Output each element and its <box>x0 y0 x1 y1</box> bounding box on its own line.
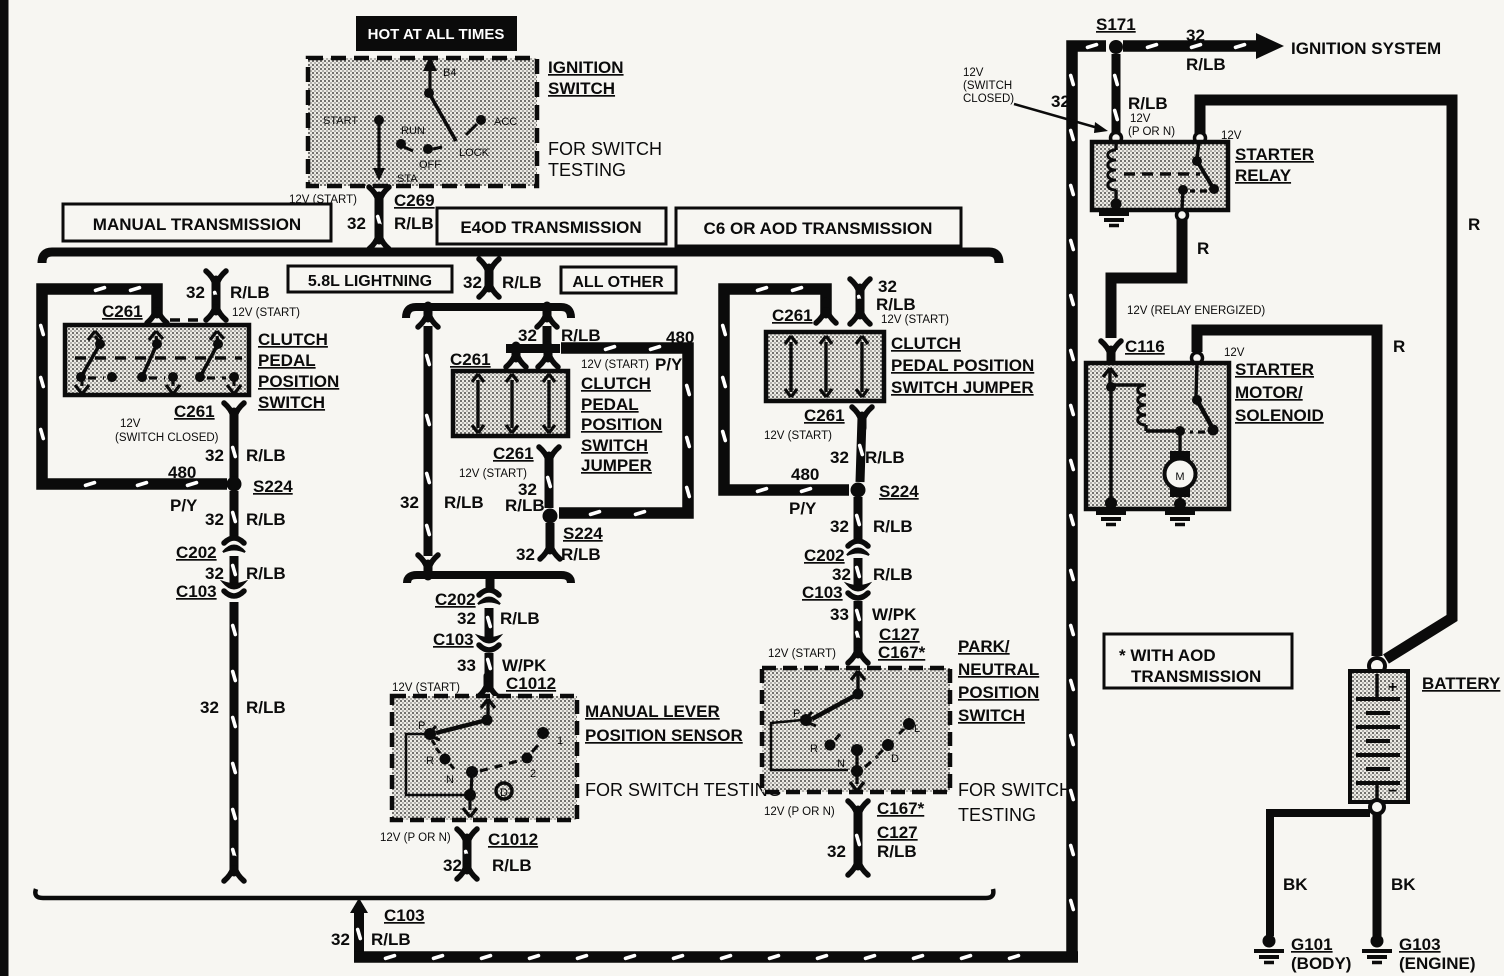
svg-text:(SWITCH: (SWITCH <box>963 80 1012 92</box>
svg-text:C261: C261 <box>102 302 143 321</box>
svg-text:C202: C202 <box>435 590 476 609</box>
svg-text:C1012: C1012 <box>488 830 538 849</box>
starter motor box <box>1086 363 1229 509</box>
svg-text:C261: C261 <box>804 406 845 425</box>
lever arm to P <box>812 694 858 719</box>
N line down and exit arrow <box>855 752 858 769</box>
svg-text:CLOSED): CLOSED) <box>963 93 1014 105</box>
svg-text:R/LB: R/LB <box>505 496 545 515</box>
dashed loop wire 480 P/Y (right) <box>720 285 849 493</box>
PNP switch internals <box>771 671 920 791</box>
svg-text:R/LB: R/LB <box>876 295 916 314</box>
svg-text:C202: C202 <box>804 546 845 565</box>
RUN terminal <box>396 139 406 149</box>
svg-text:ACC: ACC <box>494 116 517 128</box>
svg-text:PEDAL: PEDAL <box>581 395 639 414</box>
svg-text:12V: 12V <box>963 67 984 79</box>
wire S171 to starter relay <box>1112 54 1175 138</box>
svg-text:32: 32 <box>443 856 462 875</box>
jumper arrow 1 <box>785 336 797 397</box>
svg-text:C261: C261 <box>450 350 491 369</box>
wire relay output to C116 <box>1111 220 1265 338</box>
svg-text:SWITCH: SWITCH <box>548 79 615 98</box>
svg-text:32: 32 <box>205 510 224 529</box>
svg-text:12V (START): 12V (START) <box>232 307 300 319</box>
svg-text:R: R <box>1393 337 1405 356</box>
svg-text:33: 33 <box>457 656 476 675</box>
svg-text:12V (START): 12V (START) <box>764 430 832 442</box>
terminal 1 <box>537 727 549 739</box>
STA arrow down <box>377 123 380 170</box>
switch pole 2 <box>137 331 180 394</box>
label CLUTCH PEDAL POSITION SWITCH JUMPER (middle) <box>581 374 662 475</box>
dashed arc N to 2 <box>480 761 518 771</box>
motor solenoid coil <box>1111 385 1176 431</box>
connector C261 below jumper (middle) <box>459 444 559 480</box>
wire C202 to C103 (right) <box>832 558 913 586</box>
svg-text:S224: S224 <box>563 524 603 543</box>
svg-text:N: N <box>837 758 845 770</box>
dashed loop wire 480 P/Y (left) <box>38 285 227 487</box>
svg-text:32: 32 <box>331 930 350 949</box>
jumper arrow 2 <box>820 336 832 397</box>
svg-text:12V: 12V <box>1224 347 1245 359</box>
svg-text:PARK/: PARK/ <box>958 637 1010 656</box>
box ALL OTHER <box>561 267 676 293</box>
svg-text:12V (START): 12V (START) <box>881 314 949 326</box>
svg-text:32: 32 <box>400 493 419 512</box>
svg-text:C127: C127 <box>877 823 918 842</box>
svg-text:LOCK: LOCK <box>459 147 490 159</box>
svg-text:P/Y: P/Y <box>789 499 817 518</box>
battery feed wire R (relay) <box>1200 100 1480 659</box>
svg-text:R/LB: R/LB <box>561 326 601 345</box>
splice S224 (middle) <box>543 509 604 544</box>
svg-text:W/PK: W/PK <box>872 605 917 624</box>
svg-text:FOR SWITCH: FOR SWITCH <box>548 139 662 159</box>
svg-text:R/LB: R/LB <box>873 517 913 536</box>
svg-text:C167*: C167* <box>877 799 925 818</box>
box C6 OR AOD TRANSMISSION <box>676 208 961 246</box>
wire C261 to S224 (middle) <box>505 458 553 515</box>
terminal R <box>440 754 451 765</box>
lever arm to P <box>436 720 487 733</box>
svg-text:STA: STA <box>397 173 418 185</box>
svg-text:D: D <box>500 787 508 799</box>
wire C167 to bottom bus (right) <box>827 812 917 875</box>
svg-text:FOR SWITCH: FOR SWITCH <box>958 780 1072 800</box>
jumper arrow 3 <box>543 374 555 433</box>
svg-text:SWITCH: SWITCH <box>581 436 648 455</box>
motor M assembly <box>1165 426 1196 510</box>
svg-text:C269: C269 <box>394 191 435 210</box>
box E4OD TRANSMISSION <box>437 208 666 244</box>
svg-text:5.8L LIGHTNING: 5.8L LIGHTNING <box>308 273 432 290</box>
svg-text:E4OD TRANSMISSION: E4OD TRANSMISSION <box>460 218 641 237</box>
svg-text:32: 32 <box>827 842 846 861</box>
wire C261 to S224 (left) <box>205 416 286 478</box>
svg-text:* WITH AOD: * WITH AOD <box>1119 646 1216 665</box>
svg-text:CLUTCH: CLUTCH <box>891 334 961 353</box>
svg-text:BK: BK <box>1283 875 1308 894</box>
pivot node <box>482 715 493 726</box>
svg-text:START: START <box>323 115 358 127</box>
note box * WITH AOD TRANSMISSION <box>1104 634 1292 688</box>
dashed wire to ignition system arrow <box>1123 26 1441 74</box>
svg-text:C261: C261 <box>174 402 215 421</box>
svg-text:C167*: C167* <box>878 643 926 662</box>
svg-text:S224: S224 <box>879 482 919 501</box>
OFF terminal <box>423 144 433 154</box>
svg-text:R/LB: R/LB <box>502 273 542 292</box>
clutch pedal position switch box <box>65 325 249 395</box>
svg-text:12V (START): 12V (START) <box>768 648 836 660</box>
ground wire BK to G103 <box>1377 813 1416 936</box>
starter relay box <box>1092 142 1228 210</box>
svg-text:POSITION: POSITION <box>581 415 662 434</box>
terminal P <box>800 714 812 726</box>
svg-text:32: 32 <box>200 698 219 717</box>
box 5.8L LIGHTNING <box>288 266 452 292</box>
svg-text:CLUTCH: CLUTCH <box>258 330 328 349</box>
wire 33 W/PK to C1012 <box>457 653 547 688</box>
connector C1012 (top) <box>392 674 556 697</box>
svg-text:32: 32 <box>830 448 849 467</box>
clutch pedal position switch jumper box (middle) <box>453 371 568 436</box>
connector C116 <box>1101 337 1165 362</box>
svg-text:SWITCH: SWITCH <box>958 706 1025 725</box>
note 12V (SWITCH CLOSED) with arrow <box>963 67 1108 133</box>
svg-text:G101: G101 <box>1291 935 1333 954</box>
svg-text:R/LB: R/LB <box>444 493 484 512</box>
svg-text:(BODY): (BODY) <box>1291 954 1351 973</box>
svg-text:32: 32 <box>832 565 851 584</box>
svg-text:12V (START): 12V (START) <box>581 359 649 371</box>
connector C103 (left) <box>176 582 245 601</box>
svg-text:S224: S224 <box>253 477 293 496</box>
svg-text:R/LB: R/LB <box>246 564 286 583</box>
entry arrow <box>481 699 495 708</box>
dashed arc N to D <box>865 756 878 767</box>
battery box <box>1350 671 1408 802</box>
N line down and exit arrow <box>471 774 472 793</box>
svg-text:R/LB: R/LB <box>246 510 286 529</box>
svg-text:RELAY: RELAY <box>1235 166 1292 185</box>
ignition switch internals <box>323 56 517 185</box>
motor grounds <box>1096 513 1126 525</box>
svg-text:12V (START): 12V (START) <box>392 682 460 694</box>
svg-text:2: 2 <box>530 768 536 780</box>
svg-text:32: 32 <box>205 564 224 583</box>
jumper arrow 2 <box>506 374 518 433</box>
label FOR SWITCH TESTING (right) <box>958 780 1072 825</box>
svg-text:R/LB: R/LB <box>394 214 434 233</box>
connector C202 (middle) <box>435 590 500 609</box>
thick dashed bottom bus <box>354 953 1078 960</box>
svg-text:C103: C103 <box>384 906 425 925</box>
svg-text:C103: C103 <box>176 582 217 601</box>
svg-text:R/LB: R/LB <box>873 565 913 584</box>
svg-text:P: P <box>418 720 425 732</box>
terminal N junction <box>466 766 478 778</box>
entry arrow <box>851 671 865 680</box>
svg-text:R/LB: R/LB <box>865 448 905 467</box>
label STARTER RELAY <box>1235 145 1314 185</box>
svg-text:C261: C261 <box>772 306 813 325</box>
label CLUTCH PEDAL POSITION SWITCH <box>258 330 339 412</box>
ignition switch box (dashed, stippled) <box>308 58 537 186</box>
svg-text:33: 33 <box>830 605 849 624</box>
connector C261 below jumper (right) <box>764 406 872 442</box>
svg-text:POSITION: POSITION <box>258 372 339 391</box>
dashed wire 480 P/Y (middle, C-shape) <box>559 344 692 516</box>
label PARK/NEUTRAL POSITION SWITCH <box>958 637 1039 725</box>
svg-text:D: D <box>891 753 899 765</box>
svg-text:P/Y: P/Y <box>655 355 683 374</box>
svg-text:32: 32 <box>518 326 537 345</box>
svg-text:MOTOR/: MOTOR/ <box>1235 383 1303 402</box>
svg-text:12V: 12V <box>120 418 141 430</box>
ground G101 <box>1254 935 1351 974</box>
svg-text:(ENGINE): (ENGINE) <box>1399 954 1476 973</box>
svg-text:CLUTCH: CLUTCH <box>581 374 651 393</box>
jumper arrow 3 <box>856 336 868 397</box>
right drop wire to C261 (middle) <box>518 306 601 345</box>
svg-text:(P OR N): (P OR N) <box>1128 126 1175 138</box>
svg-text:R/LB: R/LB <box>500 609 540 628</box>
sensor internals <box>406 699 563 817</box>
svg-text:OFF: OFF <box>419 159 441 171</box>
box MANUAL TRANSMISSION <box>63 204 331 241</box>
svg-text:480: 480 <box>791 465 819 484</box>
motor internals: entry arrow and left line <box>1103 368 1117 509</box>
svg-text:32: 32 <box>347 214 366 233</box>
svg-text:S171: S171 <box>1096 15 1136 34</box>
svg-text:12V (START): 12V (START) <box>459 468 527 480</box>
svg-text:12V: 12V <box>1130 113 1151 125</box>
jumper arrow 1 <box>472 374 484 433</box>
svg-text:STARTER: STARTER <box>1235 145 1314 164</box>
svg-text:R/LB: R/LB <box>1128 94 1168 113</box>
wire S224 to C202 (right) <box>830 497 913 540</box>
svg-text:TRANSMISSION: TRANSMISSION <box>1131 667 1261 686</box>
thin test loop <box>771 720 848 770</box>
manual lever position sensor box <box>392 696 577 820</box>
terminal L <box>903 718 915 730</box>
battery negative terminal <box>1370 800 1384 814</box>
switch pole 1 <box>75 331 117 394</box>
terminal 2 <box>522 753 533 764</box>
relay input terminal <box>1111 133 1122 144</box>
svg-text:(SWITCH CLOSED): (SWITCH CLOSED) <box>115 432 219 444</box>
long wire C103 to bottom bus (left) <box>200 602 286 881</box>
main 12V(START) bus wire <box>42 252 999 263</box>
svg-text:R/LB: R/LB <box>1186 55 1226 74</box>
wire C202 to C103 (left) <box>205 556 286 584</box>
svg-text:MANUAL TRANSMISSION: MANUAL TRANSMISSION <box>93 215 301 234</box>
battery positive terminal <box>1369 658 1385 674</box>
svg-text:MANUAL LEVER: MANUAL LEVER <box>585 702 720 721</box>
terminal P <box>424 728 436 740</box>
svg-text:12V (RELAY ENERGIZED): 12V (RELAY ENERGIZED) <box>1127 305 1265 317</box>
svg-text:N: N <box>446 774 454 786</box>
label STARTER MOTOR/SOLENOID <box>1235 360 1324 425</box>
svg-text:R: R <box>1197 239 1209 258</box>
svg-text:POSITION: POSITION <box>958 683 1039 702</box>
svg-text:R: R <box>810 743 818 755</box>
wire from bus to C261 (left) <box>186 271 300 320</box>
battery feed wire R (motor) <box>1197 330 1405 656</box>
svg-text:NEUTRAL: NEUTRAL <box>958 660 1039 679</box>
thin test loop <box>406 734 464 795</box>
bottom bar (middle) <box>407 575 571 583</box>
node on B4 line <box>424 88 434 98</box>
ACC terminal <box>476 115 486 125</box>
connector C103 (bottom center) <box>331 898 425 952</box>
wire bus to 5.8L sub-bus <box>463 259 542 297</box>
svg-text:32: 32 <box>463 273 482 292</box>
wire S224 to bottom bar (middle) <box>516 523 601 564</box>
connector C127 C167* (top) <box>768 625 926 663</box>
circled D terminal <box>496 783 512 799</box>
terminal D <box>882 739 894 751</box>
splice S171 <box>1096 15 1136 54</box>
svg-text:32: 32 <box>830 517 849 536</box>
connector C261 bar (middle) <box>450 344 560 369</box>
svg-text:C103: C103 <box>802 583 843 602</box>
connector C103 (right) <box>802 583 869 602</box>
svg-text:SWITCH JUMPER: SWITCH JUMPER <box>891 378 1034 397</box>
wire C202 to C103 (middle) <box>457 608 540 638</box>
5.8L sub-bus <box>406 307 571 318</box>
ground G103 <box>1362 935 1476 974</box>
svg-text:R: R <box>1468 215 1480 234</box>
svg-text:C127: C127 <box>879 625 920 644</box>
svg-text:SWITCH: SWITCH <box>258 393 325 412</box>
svg-text:PEDAL: PEDAL <box>258 351 316 370</box>
svg-text:STARTER: STARTER <box>1235 360 1314 379</box>
terminal N junction <box>851 744 863 756</box>
connector C202 (right) <box>804 541 869 565</box>
svg-text:C261: C261 <box>493 444 534 463</box>
svg-text:1: 1 <box>557 735 563 747</box>
label IGNITION SWITCH <box>548 58 624 98</box>
svg-text:RUN: RUN <box>401 125 425 137</box>
relay coil <box>1108 142 1122 210</box>
svg-text:W/PK: W/PK <box>502 656 547 675</box>
svg-text:C1012: C1012 <box>506 674 556 693</box>
svg-text:M: M <box>1175 471 1184 483</box>
svg-text:IGNITION: IGNITION <box>548 58 624 77</box>
wire C261 to S224 (right) <box>791 418 905 484</box>
thin 12V(P OR N) bus <box>35 889 993 898</box>
motor 12V terminal <box>1192 347 1245 364</box>
connector C167* C127 (bottom) <box>764 799 925 842</box>
ground wire BK to G101 <box>1270 813 1370 936</box>
terminal R <box>825 740 836 751</box>
svg-text:R/LB: R/LB <box>561 545 601 564</box>
HOT AT ALL TIMES banner <box>356 16 517 51</box>
switch pole 3 <box>195 331 241 394</box>
connector C202 (left) <box>176 538 245 562</box>
relay switch contact <box>1178 142 1219 209</box>
labels 12V (START) P/Y (middle top) <box>581 355 683 374</box>
svg-text:+: + <box>1388 679 1397 696</box>
park/neutral position switch box <box>762 668 950 792</box>
svg-text:C116: C116 <box>1125 337 1165 356</box>
svg-text:R/LB: R/LB <box>492 856 532 875</box>
svg-text:ALL OTHER: ALL OTHER <box>572 274 664 291</box>
svg-text:G103: G103 <box>1399 935 1441 954</box>
svg-text:B4: B4 <box>443 67 456 79</box>
svg-text:P: P <box>793 708 800 720</box>
svg-text:C6 OR AOD TRANSMISSION: C6 OR AOD TRANSMISSION <box>704 219 933 238</box>
stem to C202 (middle) <box>486 575 495 592</box>
svg-text:R/LB: R/LB <box>246 698 286 717</box>
wire 33 W/PK to C127 (right) <box>830 601 917 652</box>
relay output terminal <box>1177 210 1188 221</box>
svg-text:32: 32 <box>516 545 535 564</box>
splice S224 (left) <box>168 463 293 515</box>
svg-text:BK: BK <box>1391 875 1416 894</box>
svg-text:R/LB: R/LB <box>230 283 270 302</box>
C261 connector dashes (left) <box>170 318 206 322</box>
relay internal ground <box>1099 214 1129 226</box>
long vertical dashed wire to S171 <box>1051 42 1106 957</box>
svg-text:32: 32 <box>205 446 224 465</box>
svg-text:TESTING: TESTING <box>548 160 626 180</box>
svg-text:32: 32 <box>457 609 476 628</box>
wire S224 to C202 (left) <box>205 491 286 540</box>
rotor arm to LOCK <box>429 93 456 141</box>
clutch pedal position switch jumper box (right) <box>766 332 884 401</box>
svg-text:12V (P OR N): 12V (P OR N) <box>764 806 835 818</box>
svg-text:SOLENOID: SOLENOID <box>1235 406 1324 425</box>
svg-text:32: 32 <box>878 277 897 296</box>
label CLUTCH PEDAL POSITION SWITCH JUMPER (right) <box>891 334 1034 397</box>
connector C1012 (bottom) <box>380 829 538 850</box>
svg-text:32: 32 <box>186 283 205 302</box>
wire C1012 to bottom bus <box>443 840 532 879</box>
svg-text:JUMPER: JUMPER <box>581 456 652 475</box>
connector C269 <box>289 187 435 249</box>
svg-text:32: 32 <box>1186 26 1205 45</box>
svg-text:R/LB: R/LB <box>877 842 917 861</box>
label MANUAL LEVER POSITION SENSOR <box>585 702 743 745</box>
connector C103 (middle) <box>433 630 500 650</box>
svg-text:IGNITION SYSTEM: IGNITION SYSTEM <box>1291 39 1441 58</box>
svg-text:HOT AT ALL TIMES: HOT AT ALL TIMES <box>368 26 505 43</box>
svg-text:BATTERY: BATTERY <box>1422 674 1501 693</box>
svg-text:TESTING: TESTING <box>958 805 1036 825</box>
motor switch contact <box>1190 363 1219 436</box>
wire bus to C261 (right) <box>850 277 949 326</box>
svg-text:−: − <box>1388 783 1397 800</box>
svg-text:R/LB: R/LB <box>246 446 286 465</box>
relay dashed link <box>1124 172 1200 176</box>
svg-text:12V (P OR N): 12V (P OR N) <box>380 832 451 844</box>
svg-text:PEDAL POSITION: PEDAL POSITION <box>891 356 1034 375</box>
svg-text:R/LB: R/LB <box>371 930 411 949</box>
svg-text:R: R <box>426 755 434 767</box>
terminal B4 arrow <box>428 66 431 92</box>
START terminal <box>374 115 384 125</box>
svg-text:C202: C202 <box>176 543 217 562</box>
left page border bar <box>0 0 9 976</box>
svg-text:480: 480 <box>168 463 196 482</box>
left drop wire (5.8L) <box>400 306 484 576</box>
pivot node <box>853 689 864 700</box>
